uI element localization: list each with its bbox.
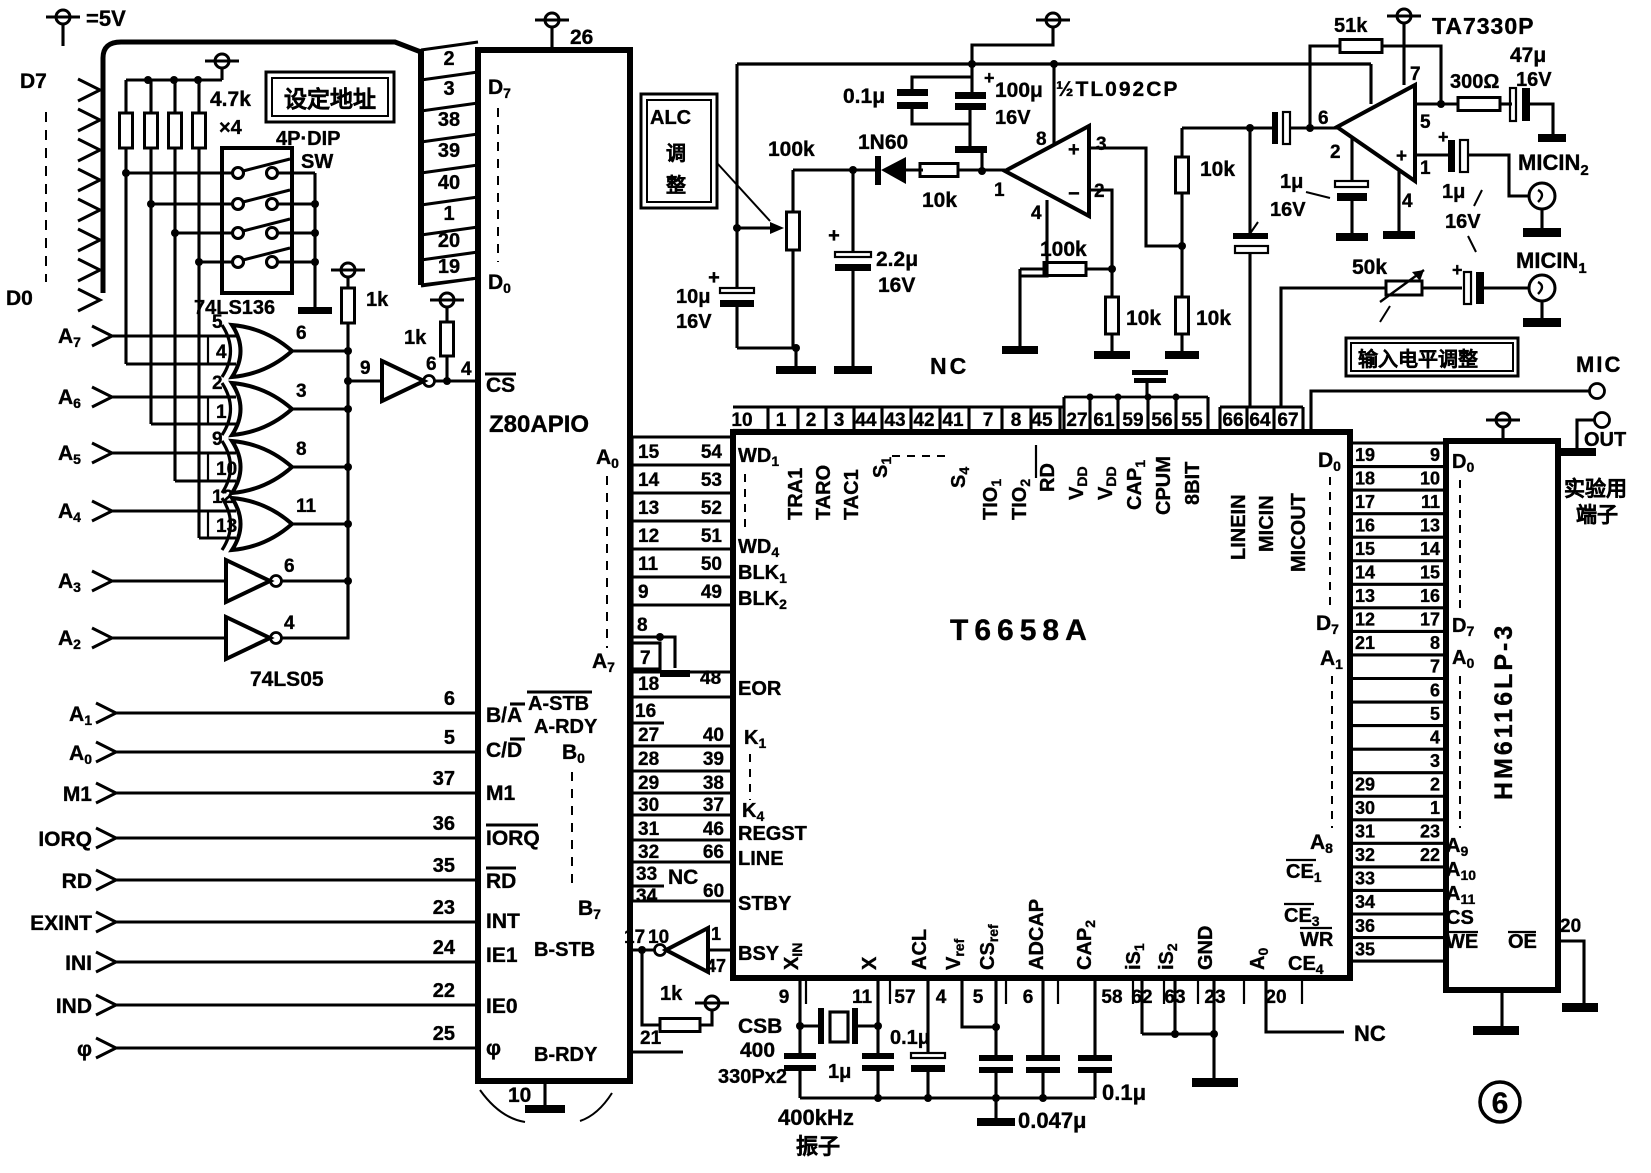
svg-text:A-RDY: A-RDY [534,716,598,738]
svg-text:IND: IND [56,995,92,1018]
svg-text:1μ: 1μ [828,1061,851,1083]
svg-text:−: − [1068,183,1080,205]
svg-text:5: 5 [1420,112,1431,133]
svg-text:51k: 51k [1334,15,1368,37]
terminal OUT [1595,413,1610,428]
label box ALC [641,94,717,208]
svg-text:振子: 振子 [796,1134,840,1159]
wire node to diode [793,168,853,171]
dashed bus line [45,112,47,282]
wire TA7330 input [1182,126,1250,129]
svg-text:4.7k: 4.7k [210,88,251,111]
jack MICIN1 [1529,275,1555,301]
svg-text:8: 8 [1036,129,1047,150]
svg-text:2: 2 [1330,142,1341,163]
op-amp TA7330P [1337,85,1415,181]
svg-text:56: 56 [1151,410,1172,431]
svg-text:0.1μ: 0.1μ [1102,1080,1146,1105]
T6658A top pins 66,64,67 [1220,405,1303,408]
resistors 4.7k x4 [124,80,127,113]
capacitor 1u pin2 TA7330 [1350,138,1353,181]
T6658A top pins 10,1,2,3,44,43,42,41,7,8,45 [733,405,1064,408]
XOR gates 74LS136 (A7..A4) [222,325,231,377]
svg-text:HM6116LP-3: HM6116LP-3 [1490,623,1518,800]
svg-text:18: 18 [638,674,659,695]
svg-text:MICIN1: MICIN1 [1516,248,1587,277]
svg-text:EOR: EOR [738,678,782,700]
pot 50k [1386,281,1422,295]
svg-text:RD: RD [1037,463,1059,492]
capacitor 330P #2 [862,1053,894,1059]
svg-text:39: 39 [438,140,460,162]
svg-text:22: 22 [1420,845,1440,865]
svg-text:16V: 16V [1516,69,1552,91]
switch common wire + ground [313,173,316,307]
pullup columns to switches and XOR inputs [124,148,127,364]
svg-text:6: 6 [426,354,437,375]
wire pin2 [1089,190,1112,269]
svg-text:4: 4 [461,359,472,380]
wire iS1 iS2 GND join [1140,978,1143,1034]
wire rail to pot [735,64,738,288]
ground 100u [955,146,987,153]
svg-text:1: 1 [443,203,454,225]
svg-text:33: 33 [636,864,657,885]
label box 设定地址 [266,72,394,122]
B-RDY pin 21 [630,1050,683,1053]
svg-text:400kHz: 400kHz [778,1105,854,1130]
svg-text:1N60: 1N60 [858,131,908,154]
pullup rail wire [126,78,222,81]
svg-text:14: 14 [1355,563,1375,583]
capacitor 0.047u [979,1055,1013,1061]
svg-text:10k: 10k [922,189,957,212]
svg-text:×4: ×4 [219,117,243,139]
pot arrow [737,226,770,229]
svg-text:INT: INT [486,910,520,933]
op-chip Z80APIO body [478,50,630,1081]
svg-text:41: 41 [942,410,964,431]
svg-text:4: 4 [216,342,227,363]
resistor 100k feedback [1044,263,1086,276]
feedback 51k [1310,46,1340,128]
svg-text:49: 49 [701,582,722,603]
svg-text:IORQ: IORQ [38,828,92,851]
svg-text:29: 29 [1355,774,1375,794]
svg-text:1: 1 [776,410,787,431]
capacitor CAP2 [1078,1055,1112,1061]
inverter 74LS05 (A2) [226,617,270,659]
svg-text:LINE: LINE [738,848,784,870]
svg-text:37: 37 [433,768,455,790]
svg-text:17: 17 [624,927,645,948]
svg-text:X: X [859,956,881,970]
svg-text:½TL092CP: ½TL092CP [1056,78,1179,101]
bottom rail [800,1096,1095,1099]
svg-text:1μ: 1μ [1280,171,1303,193]
svg-text:32: 32 [638,842,659,863]
svg-text:13: 13 [1420,515,1440,535]
connector arrows D7-D0 [78,79,100,101]
inputs A7..A2 arrows [92,326,112,346]
svg-text:5: 5 [1430,704,1440,724]
ground 2.2u [834,366,872,374]
svg-text:64: 64 [1249,410,1271,431]
svg-text:66: 66 [703,842,724,863]
svg-text:WR: WR [1300,929,1334,951]
svg-text:2.2μ: 2.2μ [876,248,918,271]
svg-text:D7: D7 [20,70,47,93]
svg-text:5: 5 [973,987,984,1008]
capacitor 1u MICIN2 [1448,140,1455,172]
svg-text:60: 60 [703,881,724,902]
svg-text:16V: 16V [1445,211,1481,233]
svg-text:1μ: 1μ [1442,181,1465,203]
svg-text:30: 30 [638,795,659,816]
svg-text:=5V: =5V [86,6,126,31]
ic HM6116LP-3 body [1446,441,1558,990]
svg-text:9: 9 [212,429,223,450]
svg-text:52: 52 [701,498,722,519]
svg-text:3: 3 [296,381,307,402]
svg-text:+: + [984,68,995,88]
svg-text:NC: NC [1354,1021,1386,1046]
svg-text:NC: NC [930,353,969,379]
svg-text:4: 4 [1402,191,1413,212]
jack MICIN2 [1529,183,1555,209]
svg-text:+: + [1396,146,1407,167]
Z80 data pin boxes 2,3,38,39,40,1,20,19 [418,49,424,285]
svg-text:8: 8 [1430,633,1440,653]
resistor 10k in [920,164,958,177]
svg-text:10k: 10k [1126,307,1161,330]
svg-text:RD: RD [62,870,92,893]
svg-text:2: 2 [1430,774,1440,794]
svg-text:43: 43 [884,410,905,431]
svg-text:44: 44 [855,410,877,431]
svg-text:+: + [828,225,840,247]
svg-text:φ: φ [486,1037,501,1060]
wire output [1415,102,1458,105]
svg-text:15: 15 [1420,563,1440,583]
svg-text:14: 14 [638,470,660,491]
wire ADCAP [1041,978,1044,1055]
svg-text:4: 4 [284,613,295,634]
svg-text:11: 11 [852,987,873,1008]
svg-text:WE: WE [1446,931,1478,953]
svg-text:MICIN: MICIN [1256,495,1278,552]
svg-text:3: 3 [1430,751,1440,771]
wire CSref [994,978,997,1055]
svg-text:21: 21 [1355,633,1375,653]
svg-text:16: 16 [1420,586,1440,606]
svg-text:17: 17 [1355,492,1375,512]
svg-text:4: 4 [1430,727,1440,747]
svg-text:5: 5 [212,312,223,333]
op-amp TL092 half [1005,126,1089,216]
svg-text:13: 13 [1355,586,1375,606]
svg-text:0.047μ: 0.047μ [1018,1108,1087,1133]
rail terminal [1036,19,1070,22]
svg-text:16: 16 [635,701,656,722]
svg-text:38: 38 [438,109,460,131]
svg-text:7: 7 [1410,64,1421,85]
svg-text:+: + [1068,139,1080,161]
wire ACL [926,978,929,1053]
svg-text:40: 40 [438,172,460,194]
HM6116 power terminal [1486,419,1520,422]
svg-text:输入电平调整: 输入电平调整 [1358,347,1478,371]
svg-text:38: 38 [703,773,724,794]
svg-text:300Ω: 300Ω [1450,71,1499,93]
resistor 300 [1458,98,1500,111]
svg-text:LINEIN: LINEIN [1228,494,1250,560]
svg-text:100μ: 100μ [995,79,1043,102]
wire pin3 divider [1089,148,1182,246]
capacitor 0.1u (ACL) [911,1053,945,1058]
svg-text:400: 400 [740,1039,775,1062]
svg-text:21: 21 [640,1028,662,1049]
terminal TA7330 V+ [1387,15,1421,18]
svg-text:CPUM: CPUM [1153,456,1175,515]
svg-text:Z80APIO: Z80APIO [489,411,589,438]
svg-text:6: 6 [1492,1087,1509,1120]
svg-text:54: 54 [701,442,723,463]
capacitor 330P #1 [784,1053,816,1059]
svg-text:20: 20 [438,230,460,252]
svg-text:10: 10 [508,1084,531,1107]
svg-text:39: 39 [703,749,724,770]
svg-text:C/D: C/D [486,739,522,762]
resistor 10k pin2 [1110,269,1113,297]
svg-text:φ: φ [77,1038,92,1061]
svg-text:55: 55 [1181,410,1203,431]
svg-text:1: 1 [994,180,1005,201]
svg-text:11: 11 [638,554,659,575]
svg-text:1: 1 [216,402,227,423]
svg-text:42: 42 [913,410,934,431]
pullup rail terminal [205,60,239,63]
capacitor input TA7330 [1272,112,1278,144]
svg-text:9: 9 [779,987,790,1008]
wire A0 pin20 NC [1266,978,1344,1032]
svg-text:1k: 1k [366,289,389,311]
svg-text:6: 6 [1023,987,1034,1008]
ALC pointer [717,163,770,221]
T6658A bottom pin ticks [805,978,807,1004]
svg-text:27: 27 [1066,410,1087,431]
svg-text:40: 40 [703,725,724,746]
svg-text:50k: 50k [1352,256,1387,279]
svg-text:7: 7 [983,410,994,431]
svg-text:23: 23 [433,897,455,919]
svg-text:28: 28 [638,749,659,770]
svg-text:6: 6 [1430,680,1440,700]
DIP switch 74LS136 4P [222,148,292,293]
capacitor 10u16V [720,288,754,293]
svg-text:1k: 1k [660,983,683,1005]
svg-text:27: 27 [638,725,659,746]
svg-text:20: 20 [1265,987,1286,1008]
inverter 74LS05 (CS) [348,379,382,382]
svg-text:MICIN2: MICIN2 [1518,150,1589,179]
svg-text:设定地址: 设定地址 [284,86,376,112]
svg-text:15: 15 [1355,539,1375,559]
resistor 1k (B-STB) [642,950,660,1025]
svg-text:SW: SW [301,151,333,173]
svg-text:34: 34 [636,886,658,907]
wire to CS pin [435,379,478,382]
svg-text:0.1μ: 0.1μ [843,85,885,108]
svg-text:13: 13 [638,498,659,519]
wire rail pin6 [1369,64,1372,104]
svg-text:2: 2 [806,410,817,431]
svg-text:16V: 16V [878,274,915,297]
svg-text:45: 45 [1031,410,1053,431]
wire X [876,978,879,1055]
svg-text:22: 22 [433,980,455,1002]
svg-text:10k: 10k [1200,158,1235,181]
ladder T6658A to HM6116 [1350,441,1446,444]
wire pot ground [737,346,796,349]
control inputs A1,A0,M1,IORQ,RD,EXINT,INI,IND,phi [96,703,116,723]
svg-text:19: 19 [1355,445,1375,465]
T6658A top pins 27,61,59,56,55 with cap [1064,396,1208,399]
wire Vref to CSref [962,978,996,1027]
capacitor ADCAP [1026,1055,1060,1061]
svg-text:EXINT: EXINT [30,912,92,935]
svg-text:3: 3 [443,78,454,100]
svg-text:3: 3 [834,410,845,431]
wire GND to ground [1212,978,1215,1078]
wire MICOUT [1281,288,1386,407]
svg-text:16V: 16V [1270,199,1306,221]
potentiometer 100k [787,212,800,250]
gate output bus [346,323,349,638]
svg-text:1: 1 [711,924,721,944]
svg-text:B-RDY: B-RDY [534,1044,598,1066]
svg-text:7: 7 [1430,657,1440,677]
capacitor 2.2u16V [851,170,854,252]
svg-text:31: 31 [638,819,660,840]
svg-text:10μ: 10μ [676,286,710,308]
svg-text:M1: M1 [63,783,92,806]
svg-text:66: 66 [1222,410,1243,431]
svg-text:0.1μ: 0.1μ [890,1027,930,1049]
B-STB inverter from BSY [630,948,654,951]
svg-text:34: 34 [1355,892,1375,912]
HM6116 ground [1500,990,1503,1026]
svg-text:6: 6 [296,323,307,344]
svg-text:35: 35 [1355,939,1375,959]
ground pin4 TA7330 [1397,170,1400,231]
svg-text:6: 6 [444,688,455,710]
svg-text:4: 4 [1031,203,1042,224]
diode 1N60 [853,168,877,171]
svg-text:MICOUT: MICOUT [1288,493,1310,572]
resistor 10k divider bottom [1180,246,1183,297]
svg-text:32: 32 [1355,845,1375,865]
svg-text:100k: 100k [768,138,815,161]
svg-text:OUT: OUT [1584,429,1626,451]
ground 0.047u [994,1098,997,1118]
svg-text:1: 1 [1430,798,1440,818]
svg-text:13: 13 [216,516,237,537]
svg-text:9: 9 [360,358,371,379]
svg-text:6: 6 [284,556,295,577]
svg-text:调: 调 [666,142,686,165]
svg-text:IE1: IE1 [486,944,518,967]
label box input level [1346,338,1518,376]
wire pin8 [1052,64,1055,145]
data bus outline [103,42,421,293]
capacitor 1u MICIN1 [1422,286,1462,289]
svg-text:11: 11 [1421,492,1440,512]
svg-text:25: 25 [433,1023,455,1045]
capacitor 0.1u rail [912,77,972,91]
svg-text:整: 整 [665,173,686,197]
svg-text:29: 29 [638,773,659,794]
resistor 1k #2 [441,322,454,356]
svg-text:端子: 端子 [1576,504,1618,527]
svg-text:CS: CS [1446,907,1474,929]
resistor 10k divider top [1180,128,1183,157]
svg-text:5: 5 [444,727,455,749]
capacitor 47u16V [1500,102,1512,105]
svg-text:+: + [1438,127,1449,147]
page number 6 [1480,1082,1520,1122]
svg-text:实验用: 实验用 [1564,477,1627,501]
svg-text:T6658A: T6658A [950,614,1093,647]
svg-text:8: 8 [1011,410,1022,431]
svg-text:8: 8 [637,615,648,636]
svg-text:B/A: B/A [486,704,522,727]
svg-text:TRA1: TRA1 [785,468,807,520]
power rail +5V analog [737,62,1371,65]
svg-text:50: 50 [701,554,722,575]
svg-text:19: 19 [438,256,460,278]
svg-text:REGST: REGST [738,823,807,845]
svg-text:TA7330P: TA7330P [1432,13,1534,39]
svg-text:58: 58 [1101,987,1122,1008]
svg-text:12: 12 [212,487,233,508]
Z80APIO pin26 terminal [550,27,553,50]
svg-text:8BIT: 8BIT [1182,462,1204,505]
svg-text:17: 17 [1420,610,1440,630]
svg-text:30: 30 [1355,798,1375,818]
svg-text:46: 46 [703,819,724,840]
svg-text:RD: RD [486,870,516,893]
svg-text:24: 24 [433,937,456,959]
svg-text:ACL: ACL [909,929,931,970]
svg-text:2: 2 [212,373,223,394]
svg-text:18: 18 [1355,468,1375,488]
ground divider [1165,351,1199,359]
svg-text:57: 57 [894,987,915,1008]
svg-text:47: 47 [706,956,726,976]
svg-text:MIC: MIC [1576,352,1622,377]
svg-text:ALC: ALC [650,107,691,129]
svg-text:31: 31 [1355,822,1375,842]
svg-text:CSB: CSB [738,1015,782,1038]
svg-text:10k: 10k [1196,307,1231,330]
ic T6658A body [733,432,1350,978]
svg-text:59: 59 [1122,410,1143,431]
svg-text:14: 14 [1420,539,1440,559]
svg-text:D0: D0 [6,287,33,310]
svg-text:12: 12 [1355,610,1375,630]
svg-text:12: 12 [638,526,659,547]
